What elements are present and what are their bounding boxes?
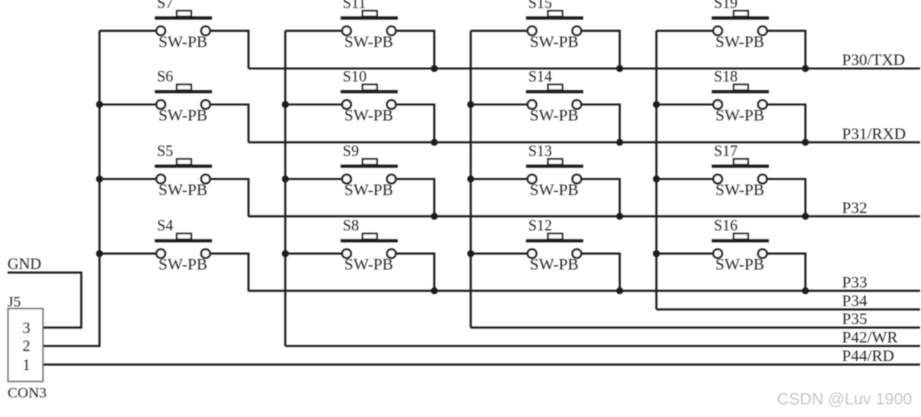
svg-text:SW-PB: SW-PB [159,255,208,274]
svg-text:1: 1 [23,357,31,374]
push button S17 (SW-PB) [712,143,769,199]
junction column 1 / row 4 [96,250,103,257]
push button S12 (SW-PB) [526,218,583,274]
svg-text:SW-PB: SW-PB [530,255,579,274]
wire S19 right terminal to P30/TXD [767,31,806,69]
push button S14 (SW-PB) [526,69,583,125]
push button S6 (SW-PB) [155,69,212,125]
wire S10 left terminal stub [285,103,342,105]
wire net P30/TXD [249,67,921,69]
wire S15 left terminal stub [471,30,528,32]
svg-text:CSDN @Luv 1900: CSDN @Luv 1900 [777,391,912,409]
svg-text:CON3: CON3 [8,386,47,402]
wire S17 right terminal to P32 [767,179,806,217]
svg-text:P32: P32 [842,199,867,217]
junction S14 drop on P31/RXD [616,139,623,146]
push button S9 (SW-PB) [341,143,398,199]
junction column 3 / row 4 [467,250,474,257]
wire column bus 2 [284,31,286,346]
wire S9 right terminal to P32 [396,179,435,217]
wire S13 right terminal to P32 [581,179,620,217]
svg-text:SW-PB: SW-PB [715,255,764,274]
wire S8 right terminal to P33 [396,254,435,292]
push button S15 (SW-PB) [526,0,583,51]
wire S13 left terminal stub [471,178,528,180]
svg-text:SW-PB: SW-PB [344,106,393,125]
wire S16 left terminal stub [656,253,713,255]
wire S14 left terminal stub [471,103,528,105]
junction column 4 / row 2 [653,101,660,108]
wire S12 left terminal stub [471,253,528,255]
junction S9 drop on P32 [431,213,438,220]
svg-text:SW-PB: SW-PB [344,32,393,51]
wire S10 right terminal to P31/RXD [396,105,435,143]
wire S17 left terminal stub [656,178,713,180]
svg-text:P34: P34 [842,292,867,310]
svg-text:S10: S10 [343,69,367,86]
junction column 3 / row 2 [467,101,474,108]
push button S5 (SW-PB) [155,143,212,199]
svg-text:S12: S12 [528,218,552,235]
svg-text:P30/TXD: P30/TXD [842,51,905,69]
svg-text:SW-PB: SW-PB [344,255,393,274]
svg-text:GND: GND [8,256,42,273]
svg-text:S14: S14 [528,69,552,86]
connector J5 (CON3) [8,295,47,402]
svg-text:S15: S15 [528,0,552,12]
junction S10 drop on P31/RXD [431,139,438,146]
svg-text:SW-PB: SW-PB [530,180,579,199]
wire S8 left terminal stub [285,253,342,255]
wire S4 left terminal stub [100,253,157,255]
wire net P33 [249,290,921,292]
svg-text:P35: P35 [842,310,867,328]
svg-text:S16: S16 [714,218,738,235]
svg-text:SW-PB: SW-PB [530,106,579,125]
wire S7 right terminal to P30/TXD [210,31,249,69]
wire S11 right terminal to P30/TXD [396,31,435,69]
push button S11 (SW-PB) [341,0,398,51]
junction column 2 / row 2 [282,101,289,108]
junction S12 drop on P33 [616,287,623,294]
push button S16 (SW-PB) [712,218,769,274]
wire S18 left terminal stub [656,103,713,105]
wire S19 left terminal stub [656,30,713,32]
svg-text:SW-PB: SW-PB [530,32,579,51]
svg-text:SW-PB: SW-PB [715,32,764,51]
wire S15 right terminal to P30/TXD [581,31,620,69]
junction column 2 / row 3 [282,176,289,183]
svg-text:2: 2 [23,338,31,355]
junction column 4 / row 4 [653,250,660,257]
svg-text:S18: S18 [714,69,738,86]
junction column 2 / row 4 [282,250,289,257]
svg-text:P31/RXD: P31/RXD [842,125,906,143]
svg-text:S11: S11 [343,0,366,12]
svg-text:S6: S6 [157,69,174,86]
svg-text:SW-PB: SW-PB [344,180,393,199]
wire column bus 1 (to J5 pin 2) [43,31,100,346]
push button S8 (SW-PB) [341,218,398,274]
push button S19 (SW-PB) [712,0,769,51]
wire S7 left terminal stub [100,30,157,32]
junction S18 drop on P31/RXD [802,139,809,146]
svg-text:S9: S9 [343,143,360,160]
junction S8 drop on P33 [431,287,438,294]
wire S14 right terminal to P31/RXD [581,105,620,143]
svg-text:J5: J5 [8,295,21,311]
wire net P34 [656,308,920,310]
push button S18 (SW-PB) [712,69,769,125]
junction S16 drop on P33 [802,287,809,294]
wire S6 left terminal stub [100,103,157,105]
svg-text:S8: S8 [343,218,360,235]
wire S6 right terminal to P31/RXD [210,105,249,143]
junction column 1 / row 3 [96,176,103,183]
wire net P42/WR [285,345,920,347]
svg-text:SW-PB: SW-PB [159,32,208,51]
wire S12 right terminal to P33 [581,254,620,292]
wire net P31/RXD [249,141,921,143]
wire S5 left terminal stub [100,178,157,180]
junction S15 drop on P30/TXD [616,65,623,72]
svg-text:3: 3 [23,320,31,337]
svg-text:S4: S4 [157,218,174,235]
svg-text:S17: S17 [714,143,738,160]
push button S10 (SW-PB) [341,69,398,125]
svg-text:SW-PB: SW-PB [715,106,764,125]
wire S4 right terminal to P33 [210,254,249,292]
svg-text:S5: S5 [157,143,174,160]
svg-text:SW-PB: SW-PB [159,180,208,199]
junction S17 drop on P32 [802,213,809,220]
push button S7 (SW-PB) [155,0,212,51]
wire GND to J5 pin 3 [8,273,82,328]
junction column 4 / row 3 [653,176,660,183]
wire S9 left terminal stub [285,178,342,180]
svg-text:S19: S19 [714,0,738,12]
svg-text:S13: S13 [528,143,552,160]
svg-text:SW-PB: SW-PB [159,106,208,125]
wire net P32 [249,215,921,217]
svg-text:S7: S7 [157,0,174,12]
push button S13 (SW-PB) [526,143,583,199]
wire net P35 [471,327,920,329]
junction S19 drop on P30/TXD [802,65,809,72]
junction S13 drop on P32 [616,213,623,220]
junction column 3 / row 3 [467,176,474,183]
svg-text:SW-PB: SW-PB [715,180,764,199]
wire S5 right terminal to P32 [210,179,249,217]
svg-text:P33: P33 [842,273,867,291]
wire column bus 3 [470,31,472,328]
wire S16 right terminal to P33 [767,254,806,292]
svg-text:P42/WR: P42/WR [842,329,898,347]
junction column 1 / row 2 [96,101,103,108]
svg-text:P44/RD: P44/RD [842,347,894,365]
wire S11 left terminal stub [285,30,342,32]
wire column bus 4 [655,31,657,310]
wire S18 right terminal to P31/RXD [767,105,806,143]
wire net P44/RD [43,364,920,366]
junction S11 drop on P30/TXD [431,65,438,72]
push button S4 (SW-PB) [155,218,212,274]
